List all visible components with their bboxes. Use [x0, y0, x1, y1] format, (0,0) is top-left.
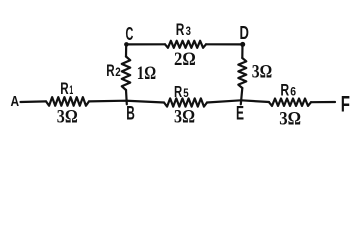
svg-text:C: C: [126, 24, 134, 44]
node D junction dot: [240, 42, 245, 47]
svg-text:2Ω: 2Ω: [174, 50, 196, 70]
wire D down to R4: [241, 44, 243, 58]
svg-text:3Ω: 3Ω: [279, 110, 301, 130]
svg-text:D: D: [240, 23, 249, 43]
svg-text:R: R: [106, 61, 114, 80]
svg-text:3Ω: 3Ω: [252, 62, 272, 82]
node C junction dot: [124, 42, 129, 47]
svg-text:2: 2: [115, 65, 121, 79]
svg-text:1: 1: [69, 83, 73, 97]
svg-text:1Ω: 1Ω: [137, 64, 156, 84]
svg-text:R: R: [176, 20, 185, 39]
svg-text:E: E: [236, 103, 244, 124]
wire R1 to R5 through node B: [89, 101, 164, 103]
resistor R1: [46, 97, 89, 106]
wire R5 to R6 through node E: [207, 100, 269, 102]
wire R2 down to node B: [125, 90, 128, 104]
svg-text:5: 5: [183, 88, 189, 100]
wire R6 to F: [311, 101, 335, 103]
svg-text:F: F: [341, 92, 350, 117]
resistor R3: [165, 41, 206, 48]
wire R4 down to node E: [241, 88, 243, 104]
resistor R4 (unlabelled 3 ohm): [238, 58, 246, 88]
resistor R5: [164, 98, 207, 106]
svg-text:6: 6: [290, 84, 296, 98]
svg-text:R: R: [60, 79, 68, 98]
svg-text:A: A: [11, 93, 20, 110]
resistor R2: [122, 57, 130, 91]
svg-text:R: R: [280, 80, 289, 99]
svg-text:R: R: [174, 84, 183, 101]
svg-text:B: B: [126, 103, 135, 124]
wire A to R1: [21, 100, 47, 103]
wire R3 to D: [206, 43, 243, 45]
svg-text:3: 3: [186, 24, 192, 38]
wire C down to R2: [125, 44, 127, 56]
svg-text:3Ω: 3Ω: [174, 107, 195, 127]
svg-text:3Ω: 3Ω: [57, 107, 78, 127]
resistor R6: [269, 99, 311, 106]
wire C to R3: [126, 43, 165, 45]
